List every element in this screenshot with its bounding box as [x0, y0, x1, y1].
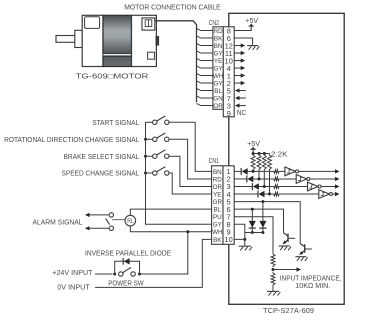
svg-text:YE: YE [213, 191, 221, 198]
svg-text:RD: RD [214, 28, 223, 35]
svg-text:BK: BK [214, 35, 223, 42]
svg-text:CN2: CN2 [209, 20, 220, 27]
svg-text:9: 9 [227, 109, 231, 118]
svg-text:+5V: +5V [247, 141, 260, 148]
svg-text:GY: GY [214, 65, 224, 72]
svg-text:TG-609□MOTOR: TG-609□MOTOR [76, 72, 149, 81]
svg-text:OR: OR [213, 184, 223, 191]
svg-text:+24V INPUT: +24V INPUT [52, 268, 93, 277]
svg-text:NC: NC [237, 110, 247, 117]
svg-text:GY: GY [214, 80, 224, 87]
svg-text:RD: RD [213, 176, 222, 183]
svg-text:RL: RL [127, 219, 133, 225]
svg-text:2.2K: 2.2K [271, 149, 288, 158]
svg-text:+5V: +5V [245, 18, 258, 25]
svg-text:ALARM SIGNAL: ALARM SIGNAL [33, 217, 83, 226]
svg-text:WH: WH [212, 229, 223, 236]
svg-text:SPEED CHANGE SIGNAL: SPEED CHANGE SIGNAL [62, 169, 140, 178]
svg-text:BL: BL [213, 206, 221, 213]
svg-text:BL: BL [214, 88, 222, 95]
svg-text:POWER SW: POWER SW [108, 278, 144, 287]
svg-text:GN: GN [213, 95, 223, 102]
svg-text:GY: GY [213, 222, 223, 229]
svg-text:BK: BK [213, 237, 222, 244]
svg-text:ROTATIONAL DIRECTION CHANGE SI: ROTATIONAL DIRECTION CHANGE SIGNAL [4, 135, 139, 144]
svg-text:TCP-S27A-609: TCP-S27A-609 [263, 306, 314, 315]
svg-text:START SIGNAL: START SIGNAL [92, 118, 139, 127]
svg-text:OR: OR [213, 103, 223, 110]
svg-text:10: 10 [224, 235, 232, 244]
svg-text:GY: GY [214, 50, 224, 57]
svg-text:CN1: CN1 [209, 158, 220, 165]
svg-text:BRAKE SELECT SIGNAL: BRAKE SELECT SIGNAL [64, 152, 140, 161]
svg-text:0V INPUT: 0V INPUT [57, 282, 90, 291]
svg-text:WH: WH [213, 73, 224, 80]
svg-text:GR: GR [213, 199, 223, 206]
svg-text:BN: BN [214, 43, 223, 50]
svg-text:YE: YE [214, 58, 222, 65]
svg-text:MOTOR CONNECTION CABLE: MOTOR CONNECTION CABLE [124, 2, 220, 11]
svg-text:INVERSE PARALLEL DIODE: INVERSE PARALLEL DIODE [85, 249, 171, 258]
svg-text:BN: BN [213, 169, 222, 176]
svg-text:PU: PU [213, 214, 222, 221]
svg-text:10KΩ MIN.: 10KΩ MIN. [295, 281, 330, 290]
